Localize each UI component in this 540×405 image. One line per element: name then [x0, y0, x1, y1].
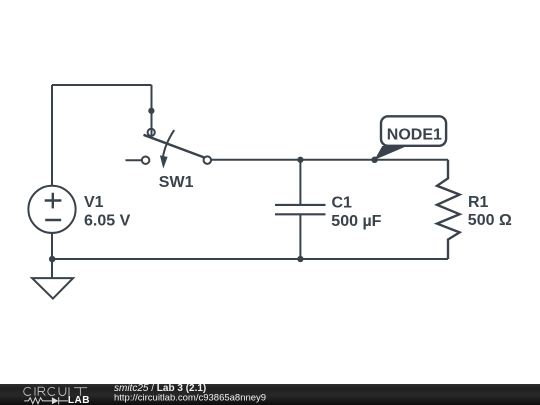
- svg-text:NODE1: NODE1: [387, 126, 442, 143]
- svg-text:500 µF: 500 µF: [331, 213, 381, 230]
- svg-text:R1: R1: [468, 194, 489, 211]
- svg-text:6.05 V: 6.05 V: [84, 213, 131, 230]
- svg-text:http://circuitlab.com/c93865a8: http://circuitlab.com/c93865a8nney9: [114, 393, 266, 404]
- svg-text:500 Ω: 500 Ω: [468, 212, 512, 229]
- svg-text:C1: C1: [332, 194, 353, 211]
- svg-text:V1: V1: [84, 194, 104, 211]
- svg-text:SW1: SW1: [159, 174, 194, 191]
- svg-text:LAB: LAB: [68, 395, 90, 405]
